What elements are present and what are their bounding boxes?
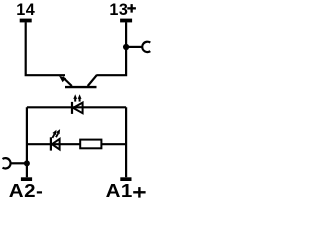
input box top edge xyxy=(27,106,126,108)
plus sign of A1+ xyxy=(133,187,145,198)
optocoupler light arrow 1 xyxy=(73,94,77,101)
wire collector to 13+ xyxy=(97,22,126,75)
optocoupler LED cathode bar xyxy=(71,102,73,114)
test socket stub left xyxy=(11,162,26,164)
test socket arc left xyxy=(2,158,10,168)
wire 14 down to emitter level xyxy=(26,22,65,75)
svg-text:A1: A1 xyxy=(106,181,133,199)
input middle branch xyxy=(27,143,126,145)
indicator LED cathode bar xyxy=(50,137,52,150)
transistor emitter arrow xyxy=(59,76,66,83)
input box right edge xyxy=(125,107,127,177)
terminal bar A1+ xyxy=(120,177,131,181)
svg-text:A2-: A2- xyxy=(9,181,43,199)
terminal bar A2- xyxy=(21,177,32,181)
transistor base bar xyxy=(65,86,97,88)
transistor collector lead xyxy=(88,75,97,86)
svg-text:13: 13 xyxy=(109,1,128,19)
indicator LED light arrow 2 xyxy=(56,129,60,137)
optocoupler light arrow 2 xyxy=(78,94,82,101)
terminal bar 14 xyxy=(20,19,32,23)
indicator LED triangle xyxy=(52,139,60,150)
indicator LED light arrow 1 xyxy=(52,130,56,138)
junction dot on A2 rail xyxy=(24,160,30,166)
svg-text:14: 14 xyxy=(16,1,35,19)
plus sign of 13+ xyxy=(127,4,136,13)
junction dot on 13+ rail xyxy=(123,44,129,50)
optocoupler LED triangle xyxy=(73,103,83,114)
transistor emitter lead xyxy=(63,77,72,86)
resistor xyxy=(80,140,101,149)
test socket arc right xyxy=(142,42,150,52)
terminal bar 13+ xyxy=(120,19,132,23)
test socket stub right xyxy=(127,46,142,48)
input box left edge xyxy=(26,107,28,177)
